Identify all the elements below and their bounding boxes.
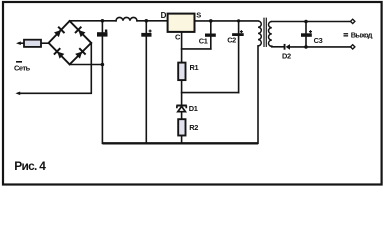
bridge diode top-left: [53, 27, 64, 38]
wire transformer primary return: [257, 46, 259, 143]
wire IC pin C down to R1: [181, 32, 183, 63]
wire R1 to D1: [181, 80, 183, 105]
wire filter cap line 1 (vertical x=102.4): [101, 21, 103, 144]
bridge diode bottom-left: [54, 48, 65, 59]
wire top rail: inductor to IC box pin D: [137, 20, 167, 22]
capacitor C2: [232, 30, 244, 36]
bridge diode bottom-right: [74, 48, 85, 59]
wire filter cap line 2 (vertical x=146.3): [145, 21, 147, 144]
transformer T1 secondary winding: [268, 22, 271, 47]
wire mains line 1 (input to fuse): [19, 42, 24, 44]
output terminal plus (diamond): [351, 19, 355, 23]
IC U1 (switching regulator): [168, 14, 195, 32]
label ~ (AC): [16, 61, 22, 63]
junction output minus / C3: [304, 45, 308, 49]
svg-text:R1: R1: [190, 63, 199, 72]
label = (DC): [344, 33, 349, 36]
border frame: [3, 2, 382, 185]
zener diode D1: [176, 106, 186, 112]
output terminal minus (diamond): [351, 45, 355, 49]
svg-text:D1: D1: [189, 104, 198, 113]
fuse FU1: [24, 40, 41, 47]
wire C2 vertical: [238, 21, 240, 93]
ground rail (bottom bus): [102, 142, 258, 144]
junction top rail / C1: [209, 19, 213, 23]
filter capacitor (unlabeled, on line 2): [141, 30, 151, 37]
wire secondary top to output plus terminal: [272, 21, 350, 23]
wire feedback node R1/D1 to C2 bottom: [182, 92, 239, 94]
wire top rail: IC pin S to transformer primary: [195, 20, 258, 22]
inductor L1: [116, 17, 137, 20]
wire C3 vertical: [305, 22, 307, 47]
resistor R2: [178, 119, 185, 135]
wire C1 vertical: [210, 21, 212, 49]
svg-text:D2: D2: [282, 51, 291, 60]
diode D2: [284, 44, 290, 50]
svg-text:C: C: [175, 33, 181, 42]
svg-text:Сеть: Сеть: [14, 64, 31, 73]
bridge diode top-right: [75, 27, 86, 38]
svg-text:D: D: [161, 11, 167, 20]
bridge rectifier diamond: [49, 21, 92, 64]
transformer T1 core: [264, 18, 266, 47]
svg-text:Выход: Выход: [351, 30, 373, 39]
junction bridge bottom / cap line: [101, 63, 105, 67]
wire bridge bottom corner to ground rail: [70, 64, 103, 66]
input arrow terminal 1: [16, 41, 21, 45]
capacitor C3: [301, 30, 312, 37]
transformer T1 primary winding: [258, 21, 261, 46]
wire secondary bottom to diode D2: [272, 45, 284, 48]
svg-text:C3: C3: [314, 36, 323, 45]
wire top rail: bridge top corner to inductor: [70, 20, 116, 22]
wire mains line 2 (lower input to bridge right corner): [19, 43, 92, 93]
resistor R1: [178, 63, 185, 81]
wire IC pin C branch to C1 bottom: [182, 48, 211, 50]
svg-text:Рис. 4: Рис. 4: [14, 159, 46, 173]
junction top rail / C2: [237, 19, 240, 22]
filter capacitor (unlabeled, on line 1): [97, 30, 108, 37]
junction top rail / filter cap 1: [101, 19, 105, 23]
svg-text:C1: C1: [199, 37, 208, 46]
svg-text:R2: R2: [189, 123, 198, 132]
wire R2 to ground rail: [181, 136, 183, 144]
svg-text:S: S: [196, 10, 201, 19]
wire diode D2 to output minus terminal: [290, 46, 350, 48]
svg-text:C2: C2: [227, 35, 236, 44]
junction top rail / filter cap 2: [145, 19, 149, 23]
input arrow terminal 2: [15, 92, 20, 96]
wire fuse to bridge left corner: [41, 42, 49, 44]
junction output plus / C3: [304, 20, 308, 24]
capacitor C1: [205, 34, 216, 37]
wire D1 to R2: [181, 112, 183, 119]
